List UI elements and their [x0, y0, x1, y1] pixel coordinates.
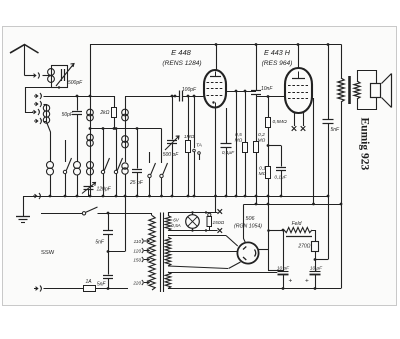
- svg-text:1A: 1A: [86, 279, 93, 285]
- svg-text:150: 150: [133, 258, 141, 263]
- svg-text:+: +: [305, 278, 309, 285]
- svg-text:MΩ: MΩ: [258, 138, 266, 144]
- svg-text:50pF: 50pF: [62, 112, 74, 118]
- svg-text:1MΩ: 1MΩ: [184, 134, 195, 140]
- svg-text:150Ω: 150Ω: [213, 220, 225, 226]
- svg-text:500 pF: 500 pF: [163, 152, 180, 158]
- svg-text:0,1μF: 0,1μF: [274, 175, 287, 181]
- svg-text:110: 110: [134, 239, 142, 244]
- svg-text:2kΩ: 2kΩ: [99, 110, 109, 116]
- svg-text:10nF: 10nF: [261, 86, 273, 92]
- svg-text:(RES 964): (RES 964): [262, 60, 293, 67]
- svg-text:TA: TA: [196, 143, 202, 149]
- svg-text:0,2: 0,2: [258, 132, 265, 138]
- svg-text:0,1: 0,1: [259, 166, 266, 172]
- svg-text:E 448: E 448: [171, 48, 192, 57]
- svg-text:+: +: [289, 278, 293, 285]
- svg-text:100pF: 100pF: [182, 87, 197, 93]
- svg-text:220: 220: [132, 281, 141, 286]
- svg-text:120: 120: [133, 249, 141, 254]
- svg-text:Eumig 923: Eumig 923: [359, 118, 371, 171]
- svg-text:25 pF: 25 pF: [129, 180, 144, 186]
- svg-text:0,5MΩ: 0,5MΩ: [273, 119, 288, 125]
- svg-text:0,1μF: 0,1μF: [222, 150, 235, 156]
- svg-text:(RENS 1284): (RENS 1284): [162, 60, 201, 67]
- svg-text:E 443 H: E 443 H: [264, 48, 291, 57]
- svg-text:Feld: Feld: [292, 221, 302, 227]
- svg-text:0,5A: 0,5A: [171, 223, 180, 228]
- svg-text:(RGN 1054): (RGN 1054): [234, 224, 262, 230]
- svg-text:MΩ: MΩ: [259, 171, 267, 177]
- svg-text:10 μF: 10 μF: [310, 265, 323, 271]
- svg-text:6V: 6V: [173, 218, 180, 223]
- svg-text:500pF: 500pF: [68, 80, 83, 86]
- svg-text:506: 506: [246, 216, 255, 222]
- svg-text:0,5: 0,5: [235, 132, 242, 138]
- svg-text:5nF: 5nF: [95, 240, 105, 246]
- svg-text:5nF: 5nF: [331, 127, 341, 133]
- svg-text:10 μF: 10 μF: [277, 265, 290, 271]
- svg-text:270Ω: 270Ω: [297, 244, 310, 250]
- svg-text:SSW: SSW: [41, 250, 55, 256]
- svg-text:MΩ: MΩ: [235, 138, 243, 144]
- svg-text:5nF: 5nF: [97, 282, 107, 288]
- svg-text:120pF: 120pF: [97, 187, 112, 193]
